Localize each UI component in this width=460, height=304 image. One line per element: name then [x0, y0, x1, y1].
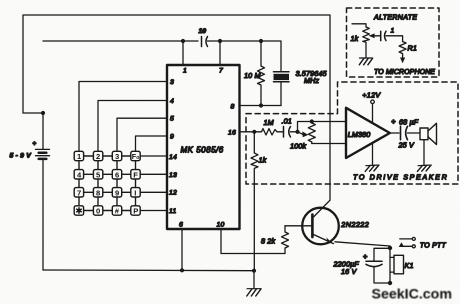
ground under LM380	[365, 143, 379, 172]
key 3	[112, 151, 121, 161]
potentiometer 100k	[290, 119, 315, 150]
node pot input junction	[295, 130, 299, 134]
node pin16 junction	[252, 130, 256, 134]
IC U1 MK5085/6	[167, 65, 240, 229]
key 0	[93, 206, 102, 216]
wire pin 4 to keypad column 2	[98, 101, 167, 152]
wire battery+ jog	[23, 112, 43, 114]
capacitor C2 .01	[282, 117, 292, 138]
battery B1 5-9V	[10, 113, 50, 270]
node pin7 rail junction	[218, 39, 222, 43]
wire pin 12 row 3	[140, 191, 167, 193]
key 1	[74, 151, 83, 161]
wire 8.2k to base	[285, 225, 311, 227]
key 5	[93, 170, 102, 180]
wire PTT node down	[389, 248, 391, 283]
wire pot bottom to LM380 lower input	[312, 143, 346, 145]
wire pin 1	[182, 41, 184, 65]
capacitor C1 10	[199, 28, 208, 47]
key P	[131, 206, 140, 216]
key 6	[112, 170, 121, 180]
wire outer top rail battery+ to collector	[23, 15, 330, 200]
wire pin 10 down and right	[221, 229, 285, 254]
key F	[131, 170, 140, 180]
+12V terminal	[362, 90, 381, 123]
relay K1	[390, 255, 414, 273]
wire cap to R1	[386, 36, 403, 42]
wire inner rail right of cap to crystal top	[208, 41, 282, 71]
wire pot top to LM380 upper input	[312, 121, 346, 123]
ground under speaker	[417, 165, 431, 171]
resistor 8.2k	[261, 226, 289, 254]
transistor Q1 2N2222	[302, 200, 369, 244]
keypad grid	[79, 156, 136, 211]
key 9	[112, 188, 121, 198]
keypad keys	[74, 151, 140, 215]
wire pin 14 row 1	[140, 155, 167, 157]
key #	[112, 206, 121, 216]
arrow to microphone	[400, 58, 405, 64]
ground main	[247, 271, 261, 296]
capacitor C4 68uF	[391, 117, 418, 150]
wire 1M to cap	[277, 131, 284, 133]
wire pin 11 row 4	[140, 210, 167, 212]
node pin1 rail junction	[181, 39, 185, 43]
wire cap to pot node	[291, 131, 298, 133]
node battery+ junction	[41, 111, 45, 115]
wire inner top rail	[43, 40, 198, 42]
wire pin 5 to keypad column 3	[117, 118, 167, 151]
capacitor (alternate) with wiper arrow	[369, 28, 395, 41]
resistor 10M	[244, 41, 265, 106]
key *	[74, 206, 83, 215]
key Fo	[131, 151, 140, 161]
wire pin 3 to keypad column 1	[79, 82, 167, 152]
PTT contacts	[399, 237, 447, 249]
wire cap to speaker	[408, 132, 421, 134]
node bottom junction	[388, 281, 392, 285]
dashed box ALTERNATE	[347, 8, 440, 77]
keypad column interconnects	[79, 161, 136, 206]
key 4	[74, 170, 83, 180]
node 10M bottom junction	[259, 103, 263, 107]
wire emitter to PTT node	[335, 242, 390, 248]
wire pin 7	[219, 41, 221, 65]
op-amp U2 LM380	[346, 108, 390, 158]
wire pin 16	[240, 131, 262, 133]
key 8	[93, 188, 102, 198]
node ground junction	[252, 269, 256, 273]
wire bottom rail	[43, 269, 254, 272]
node emitter junction	[388, 246, 392, 250]
key I	[131, 188, 140, 198]
capacitor 2200uF	[333, 248, 391, 283]
dashed box TO DRIVE SPEAKER	[246, 82, 458, 184]
wire LM380 output	[390, 132, 399, 134]
node 10M top junction	[259, 39, 263, 43]
crystal Y1 3.579645 MHz	[274, 69, 328, 106]
ground (alternate)	[359, 58, 372, 65]
node pin6 bottom junction	[180, 268, 184, 272]
resistor 1M	[262, 118, 278, 135]
key 7	[74, 188, 83, 198]
wire pin 13 row 2	[140, 173, 167, 175]
speaker LS1	[420, 123, 437, 165]
resistor 1k (pin 16 load)	[251, 132, 267, 271]
potentiometer 1k (alternate)	[351, 24, 370, 58]
resistor R1	[399, 42, 417, 58]
wire pin 6 down	[181, 229, 183, 270]
wire pin 9 to keypad column 4	[136, 136, 168, 151]
keypad row interconnects	[83, 156, 130, 211]
key 2	[93, 151, 102, 161]
wire pin 8	[240, 105, 281, 107]
